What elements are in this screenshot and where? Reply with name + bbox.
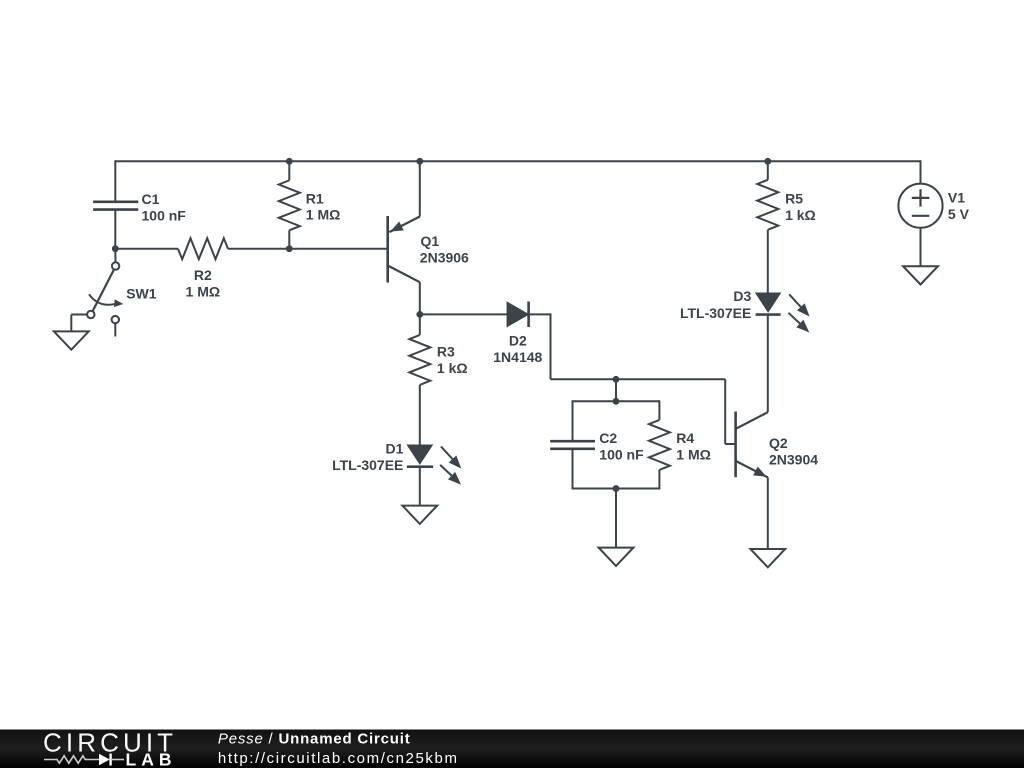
wire SW1 top stub: [114, 249, 116, 263]
wire V1 top lead: [920, 160, 922, 184]
logo LAB: [126, 750, 177, 768]
node top rail / R1: [286, 158, 293, 165]
svg-text:100 nF: 100 nF: [142, 207, 187, 223]
capacitor C2: [550, 441, 595, 449]
svg-text:http://circuitlab.com/cn25kbm: http://circuitlab.com/cn25kbm: [218, 750, 459, 767]
watermark bar background: [0, 730, 1024, 768]
svg-text:5 V: 5 V: [948, 206, 970, 222]
svg-text:SW1: SW1: [126, 286, 157, 302]
wire R5 top lead: [767, 161, 769, 180]
wire R1 top lead: [288, 161, 290, 180]
transistor Q2 collector diagonal: [736, 412, 768, 429]
svg-text:LAB: LAB: [126, 750, 177, 768]
label D3: [680, 288, 752, 321]
wire C1 top lead: [114, 160, 116, 202]
wire SW1 to ground: [71, 315, 87, 332]
wire top rail: [115, 160, 920, 162]
label D1: [332, 441, 404, 473]
logo wire with resistor: [44, 756, 99, 763]
svg-text:V1: V1: [948, 189, 965, 205]
svg-text:Pesse / Unnamed Circuit: Pesse / Unnamed Circuit: [218, 731, 411, 748]
transistor Q1 emitter diagonal: [389, 217, 420, 233]
wire C2 top lead: [572, 400, 574, 441]
switch SW1 arm: [89, 269, 114, 318]
switch SW1 right terminal: [112, 316, 119, 323]
switch SW1 left terminal: [87, 311, 94, 318]
label V1: [948, 189, 970, 222]
ground at V1: [903, 266, 938, 284]
wire junction to block top: [615, 379, 617, 401]
svg-text:R3: R3: [437, 344, 455, 360]
resistor R1: [279, 180, 300, 230]
wire R5 to D3: [767, 230, 769, 294]
resistor R4: [649, 420, 670, 470]
transistor Q2 emitter diagonal: [736, 461, 768, 478]
ground at D1: [402, 506, 437, 524]
svg-text:1 MΩ: 1 MΩ: [306, 207, 341, 223]
transistor Q1 emitter arrow: [390, 222, 403, 232]
diode D3 triangle: [756, 293, 780, 311]
svg-text:D1: D1: [385, 441, 403, 457]
svg-text:D2: D2: [509, 333, 527, 349]
svg-text:2N3906: 2N3906: [420, 249, 469, 265]
svg-text:1 MΩ: 1 MΩ: [676, 446, 711, 462]
diode D3 emission arrows: [789, 294, 810, 332]
node Q1-collector/R3/D2 junction: [416, 311, 423, 318]
wire block top: [573, 400, 660, 402]
svg-text:LTL-307EE: LTL-307EE: [680, 305, 751, 321]
label Q1: [420, 233, 469, 265]
svg-text:2N3904: 2N3904: [769, 451, 818, 467]
voltage source V1 circle: [898, 184, 942, 228]
svg-text:D3: D3: [733, 288, 751, 304]
label R5 value: [785, 191, 816, 223]
wire D1 to ground: [419, 467, 421, 506]
capacitor C1: [93, 202, 138, 210]
wire V1 to ground: [920, 228, 922, 266]
node C1/R2/SW1 junction: [112, 245, 119, 252]
wire Q2 emitter to ground: [767, 477, 769, 549]
node R1/R2/Q1-base junction: [286, 245, 293, 252]
watermark title: [218, 731, 411, 748]
wire R2 to Q1 base: [228, 248, 387, 250]
label D2: [493, 333, 542, 365]
wire Q2 collector lead: [767, 315, 769, 413]
node top rail / Q1 emitter: [416, 158, 423, 165]
svg-text:Q2: Q2: [769, 435, 788, 451]
ground at SW1: [54, 331, 89, 349]
label R1 value: [306, 190, 341, 222]
transistor Q2 base bar: [734, 412, 737, 478]
svg-text:LTL-307EE: LTL-307EE: [332, 457, 403, 473]
wire block bottom: [573, 488, 660, 490]
label SW1: [126, 286, 157, 302]
ground at C2/R4: [599, 548, 634, 566]
transistor Q2 emitter arrow: [753, 467, 766, 477]
svg-text:1N4148: 1N4148: [493, 349, 542, 365]
diode D2 triangle: [507, 303, 528, 327]
svg-text:R2: R2: [194, 267, 212, 283]
wire R2 left lead: [115, 248, 178, 250]
resistor R2: [178, 238, 228, 259]
transistor Q1 base bar: [386, 216, 389, 283]
label C2 value: [599, 430, 644, 462]
node top rail / R5: [764, 158, 771, 165]
label R3 value: [437, 344, 468, 376]
resistor R5: [757, 180, 778, 230]
ground at Q2: [750, 549, 785, 567]
logo diode: [99, 754, 124, 766]
wire Q1 emitter lead: [419, 161, 421, 216]
diode D2 cathode bar: [527, 302, 530, 328]
svg-text:C1: C1: [142, 191, 160, 207]
diode D1 cathode bar: [407, 465, 433, 468]
label R2 value: [186, 267, 221, 300]
wire D2 to Q2 base: [551, 378, 726, 380]
svg-text:R5: R5: [785, 191, 803, 207]
wire C2 bottom lead: [572, 449, 574, 490]
svg-text:Q1: Q1: [421, 233, 440, 249]
wire Q2 base corner: [725, 379, 734, 444]
voltage source V1 plus sign: [912, 189, 930, 206]
wire Q1 collector lead: [419, 282, 421, 314]
resistor R3: [409, 335, 430, 385]
wire Q1 collector to D2: [420, 313, 508, 315]
wire D2 to corner: [529, 313, 551, 379]
node D2/C2-R4/Q2-base junction: [613, 376, 620, 383]
switch SW1 top terminal: [112, 262, 119, 269]
svg-text:R4: R4: [676, 430, 694, 446]
svg-text:1 kΩ: 1 kΩ: [437, 360, 468, 376]
label C1 value: [142, 191, 187, 223]
svg-text:R1: R1: [306, 190, 324, 206]
diode D1 triangle: [408, 445, 432, 463]
svg-text:C2: C2: [599, 430, 617, 446]
voltage source V1 minus sign: [912, 215, 930, 217]
wire SW1 right terminal stub: [114, 324, 116, 337]
wire R3 top lead: [419, 314, 421, 335]
watermark url: [218, 750, 459, 767]
wire R4 top lead: [658, 400, 660, 420]
switch SW1 actuator arc: [89, 294, 123, 307]
transistor Q1 collector diagonal: [388, 266, 420, 283]
diode D1 emission arrows: [440, 446, 461, 484]
node block top junction: [613, 398, 620, 405]
wire R3 to D1: [419, 385, 421, 446]
wire R1 bottom lead: [288, 230, 290, 248]
logo CIRCUIT: [43, 728, 177, 758]
svg-text:1 MΩ: 1 MΩ: [186, 283, 221, 299]
wire R4 bottom lead: [658, 470, 660, 490]
wire block to ground: [615, 489, 617, 548]
wire C1 bottom lead: [114, 210, 116, 249]
diode D3 cathode bar: [756, 313, 781, 316]
label R4 value: [676, 430, 711, 462]
svg-text:100 nF: 100 nF: [599, 446, 644, 462]
node block bottom junction: [613, 485, 620, 492]
svg-text:1 kΩ: 1 kΩ: [785, 207, 816, 223]
label Q2: [769, 435, 818, 467]
